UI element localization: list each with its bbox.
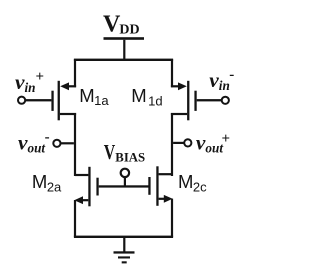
transistor M1a source arrow (PMOS) bbox=[60, 82, 69, 90]
wire M1a source vertical bbox=[74, 59, 76, 87]
ground symbol bar 1 bbox=[114, 251, 135, 253]
svg-text:vin-: vin- bbox=[209, 67, 234, 93]
wire left branch vertical (M1a drain to M2a drain) bbox=[74, 113, 76, 176]
svg-text:M1d: M1d bbox=[131, 85, 162, 108]
wire VDD rail bbox=[74, 59, 173, 61]
transistor M1a gate bar bbox=[51, 91, 53, 111]
svg-text:M2a: M2a bbox=[32, 171, 62, 194]
transistor M2a channel bar bbox=[88, 167, 90, 207]
node vout- terminal circle bbox=[53, 140, 60, 147]
wire M1a drain horizontal bbox=[60, 113, 76, 115]
node vin+ terminal circle bbox=[18, 97, 25, 104]
wire right branch vertical (M1d drain to M2c drain) bbox=[171, 113, 173, 176]
svg-text:vout+: vout+ bbox=[196, 131, 230, 156]
wire VBIAS stub bbox=[124, 177, 126, 185]
node VBIAS terminal circle bbox=[121, 169, 129, 177]
transistor M1d channel bar bbox=[187, 81, 189, 121]
wire vout- stub bbox=[61, 142, 74, 144]
wire M1d drain horizontal bbox=[171, 113, 187, 115]
node vin- terminal circle bbox=[222, 97, 229, 104]
wire M1a source horizontal bbox=[65, 85, 76, 87]
transistor M1d source arrow (PMOS) bbox=[178, 82, 187, 90]
transistor M2c channel bar bbox=[156, 166, 158, 206]
transistor M1d gate bar bbox=[194, 91, 196, 111]
transistor M2c source arrow (NMOS) bbox=[164, 195, 173, 203]
wire M2c drain horizontal bbox=[159, 173, 172, 175]
wire M2a source horizontal bbox=[78, 199, 88, 201]
svg-text:VDD: VDD bbox=[103, 11, 140, 37]
transistor M1a channel bar bbox=[58, 81, 60, 121]
svg-text:VBIAS: VBIAS bbox=[104, 140, 145, 165]
wire ground stub bbox=[123, 238, 125, 252]
wire M2a drain horizontal bbox=[75, 174, 88, 176]
wire M1a gate bbox=[26, 99, 52, 101]
svg-text:vin+: vin+ bbox=[15, 69, 44, 95]
power VDD bar symbol bbox=[104, 37, 145, 40]
wire common gate (VBIAS net) bbox=[99, 185, 149, 187]
svg-text:M2c: M2c bbox=[178, 171, 207, 194]
wire M2a source vertical bbox=[74, 200, 76, 237]
wire M1d gate bbox=[197, 99, 222, 101]
wire VDD stub bbox=[123, 40, 125, 60]
svg-text:vout-: vout- bbox=[18, 129, 50, 155]
ground symbol bar 3 bbox=[122, 261, 127, 263]
wire M2c source vertical bbox=[171, 199, 173, 237]
node vout+ terminal circle bbox=[184, 139, 191, 146]
transistor M2a source arrow (NMOS) bbox=[74, 196, 83, 204]
svg-text:M1a: M1a bbox=[79, 85, 109, 108]
transistor M2c gate bar bbox=[148, 177, 150, 195]
wire M2c source horizontal bbox=[159, 198, 169, 200]
ground symbol bar 2 bbox=[118, 256, 130, 258]
wire ground rail bbox=[74, 236, 173, 238]
transistor M2a gate bar bbox=[96, 178, 98, 196]
wire M1d source horizontal bbox=[171, 85, 182, 87]
wire vout+ stub bbox=[173, 142, 184, 144]
wire M1d source vertical bbox=[171, 59, 173, 87]
